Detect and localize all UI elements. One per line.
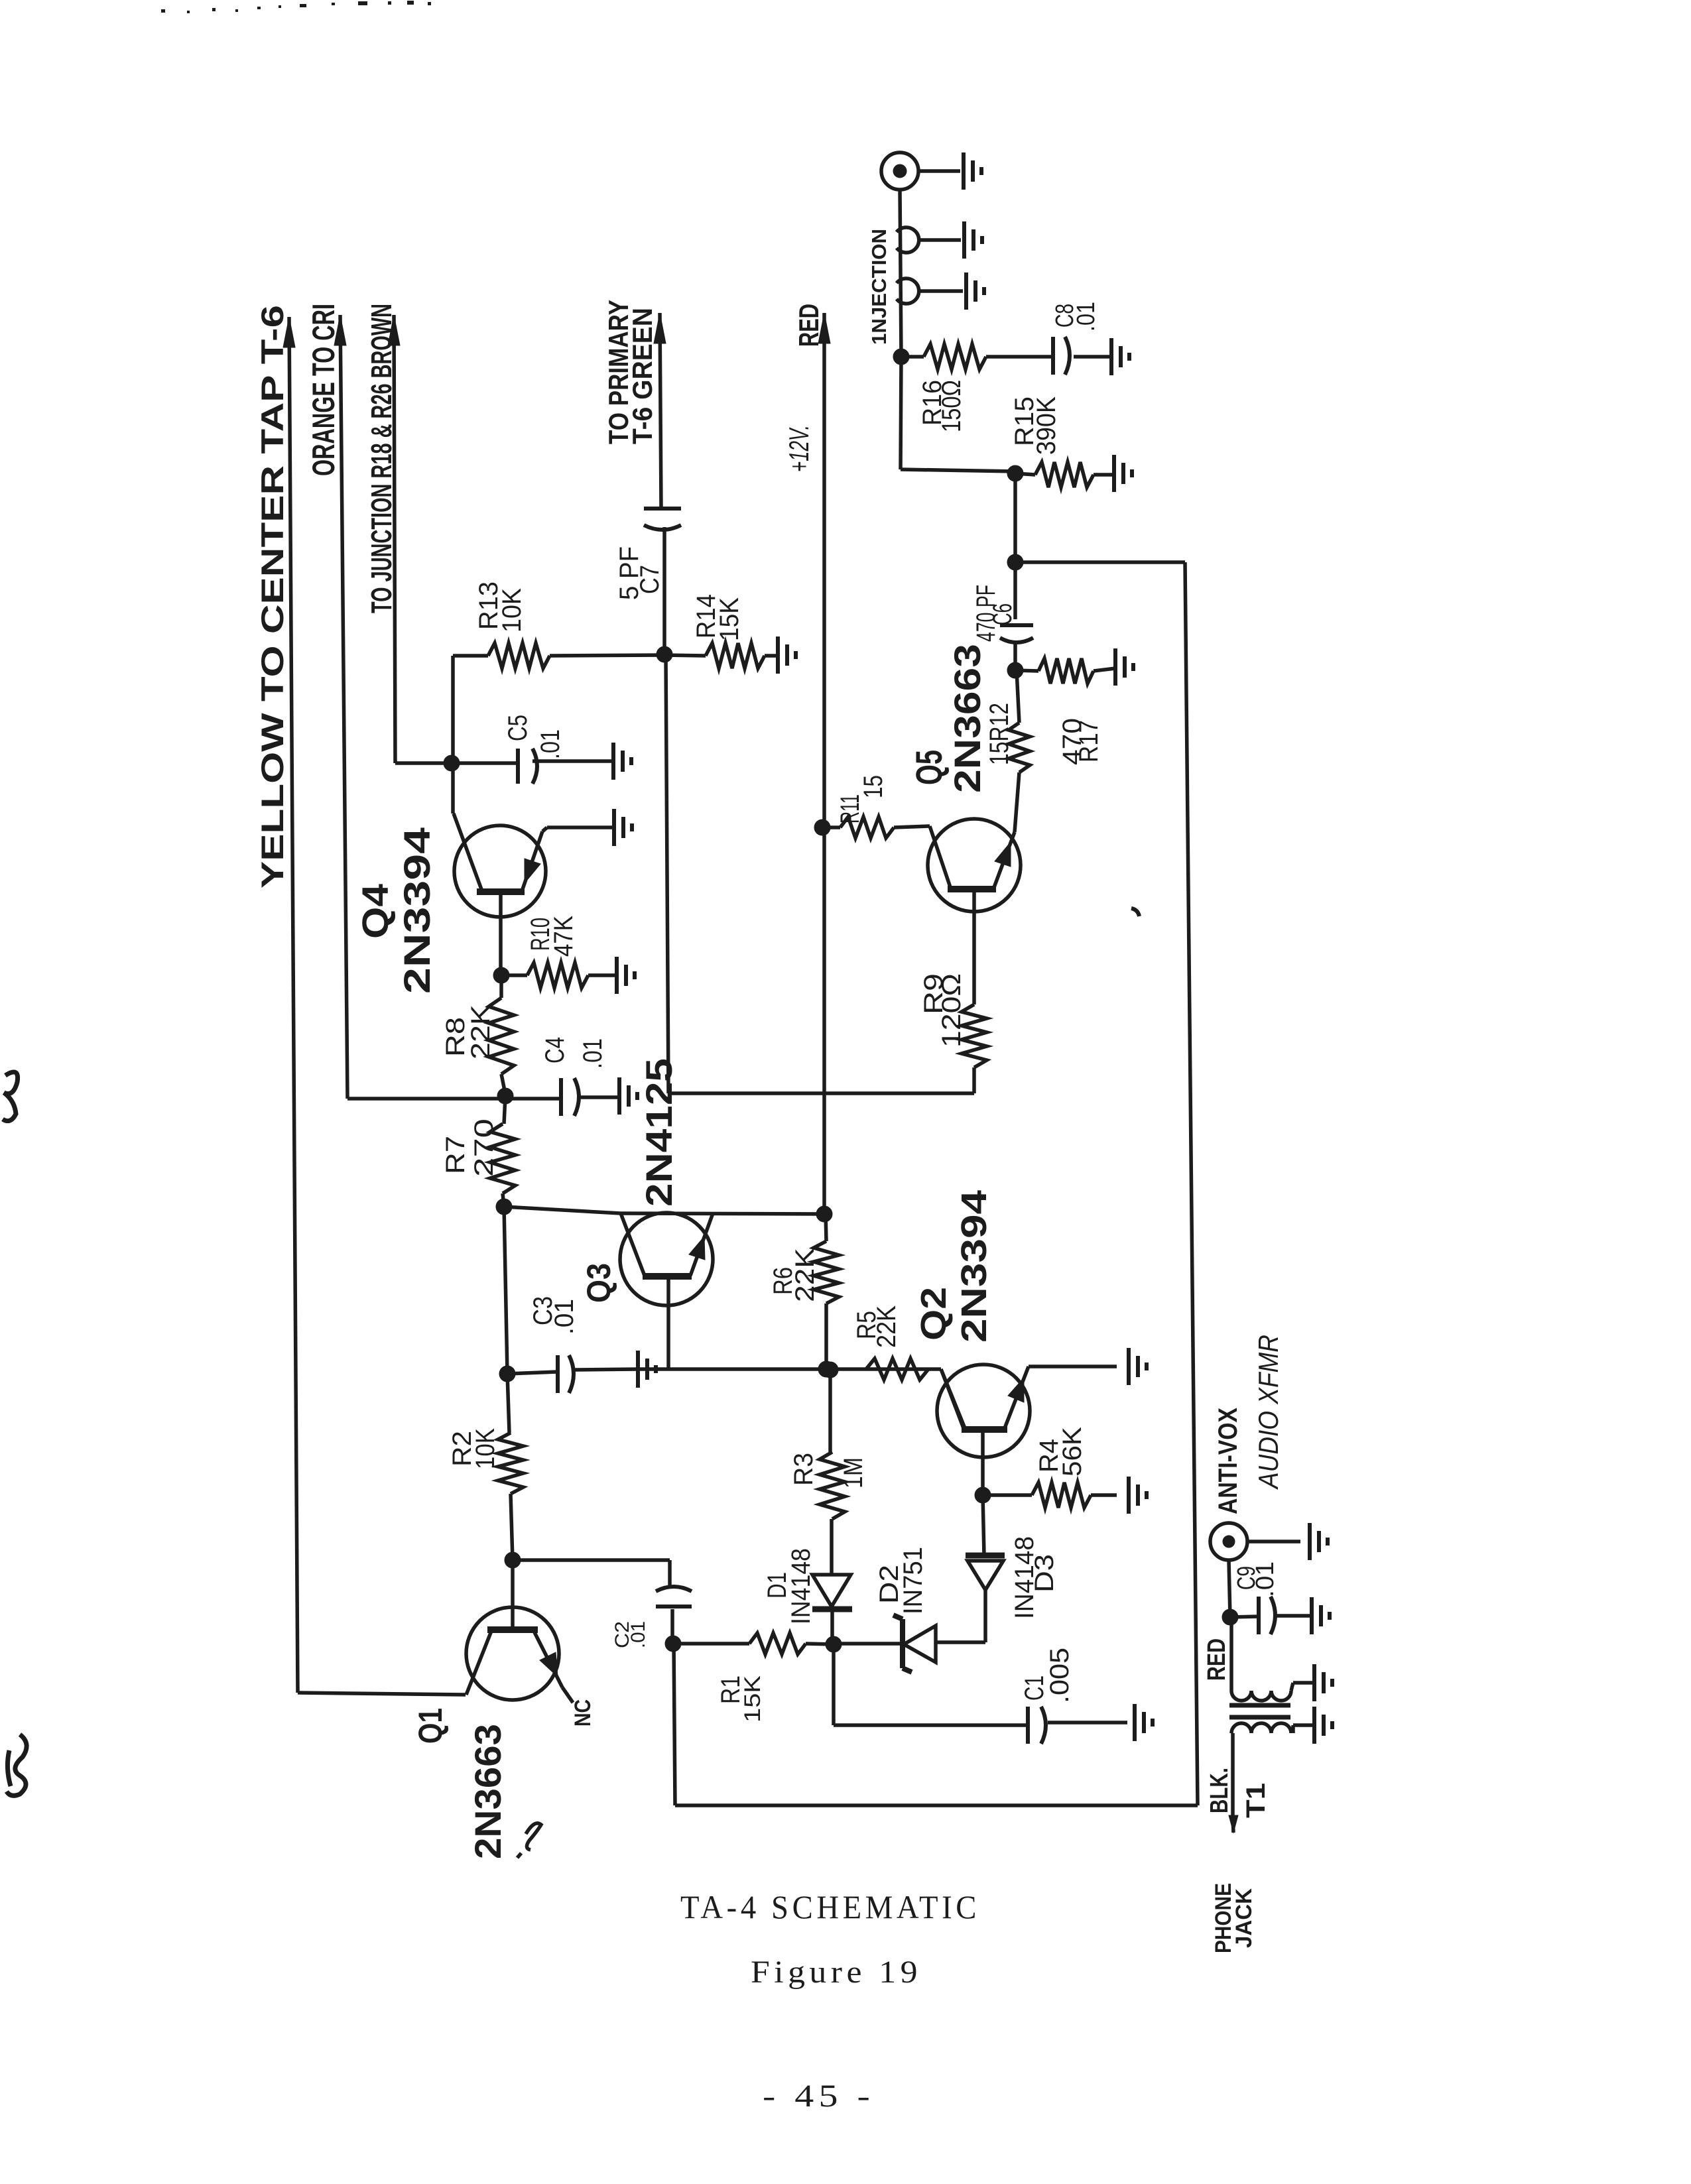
diode D1 [812, 1519, 852, 1644]
transistor Q5 base bar [948, 886, 996, 892]
wire bias rail (C3 ground to R5) [638, 1367, 928, 1371]
label D1 IN4148 [763, 1548, 816, 1624]
resistor R3 [820, 1370, 845, 1519]
svg-text:.01: .01 [627, 1621, 649, 1648]
svg-text:RED: RED [1203, 1638, 1231, 1681]
svg-text:R17: R17 [1074, 720, 1103, 762]
transistor Q2 base lead [981, 1429, 985, 1495]
ground (C9) [1312, 1597, 1330, 1634]
label R6 22K [769, 1248, 820, 1302]
scan specks top edge [161, 1, 431, 13]
svg-text:22K: 22K [790, 1248, 820, 1302]
transistor Q3 emitter with arrow [689, 1213, 713, 1276]
wire T1 primary to ground [1291, 1683, 1313, 1691]
svg-text:+12V.: +12V. [783, 425, 814, 472]
svg-text:1NJECTION: 1NJECTION [867, 229, 891, 345]
ground (C8) [1111, 338, 1129, 375]
scan scribble left margin upper [3, 1072, 18, 1121]
node junction dot (feedback) [1007, 554, 1023, 570]
transistor Q2 circle [937, 1365, 1030, 1457]
title TA-4 SCHEMATIC [680, 1888, 980, 1925]
label C7 value 5 PF [615, 546, 664, 600]
svg-text:R7: R7 [441, 1136, 470, 1174]
svg-text:D3: D3 [1030, 1554, 1059, 1593]
ground (R4) [1129, 1477, 1147, 1514]
transistor Q4 base lead [499, 892, 503, 975]
svg-text:Q4: Q4 [354, 884, 396, 939]
svg-text:56K: 56K [1058, 1427, 1087, 1477]
svg-text:Q1: Q1 [412, 1708, 449, 1744]
resistor R13 [453, 643, 664, 668]
wire BROWN node to R13 [451, 656, 455, 763]
label 2N3663 (Q1) [467, 1724, 509, 1859]
wire Q2 emitter to ground [1029, 1365, 1117, 1368]
transistor Q4 emitter with inward arrow [522, 831, 542, 891]
node junction dot (+12V / Q3 emitter / R6) [816, 1206, 832, 1222]
svg-text:C6: C6 [988, 603, 1017, 625]
node junction dot (Q2 base/R4/D3) [975, 1487, 991, 1503]
capacitor C5 [452, 749, 613, 784]
node junction dot (R15) [1007, 465, 1023, 481]
label R14 15K [692, 594, 744, 641]
svg-text:TO JUNCTION R18 & R26 BROWN: TO JUNCTION R18 & R26 BROWN [365, 304, 398, 613]
label T1 [1241, 1783, 1271, 1818]
svg-text:2N4125: 2N4125 [638, 1058, 680, 1207]
wire injection node to R15 node [901, 357, 1015, 471]
svg-text:- 45 -: - 45 - [763, 2079, 875, 2114]
label R7 270 [441, 1119, 499, 1177]
capacitor C3 [507, 1355, 638, 1393]
label +12V [783, 425, 814, 472]
transistor Q2 base bar [962, 1426, 1007, 1433]
transformer T1 primary winding [1231, 1691, 1291, 1701]
node junction dot (Q4 base/R10/R8) [493, 967, 509, 983]
wire BROWN lead to junction R18 R26 [388, 315, 452, 763]
resistor R15 [1015, 462, 1114, 487]
transistor Q2 emitter with arrow [1005, 1366, 1029, 1428]
wire YELLOW lead to center tap T-6 [283, 317, 466, 1695]
wire bottom bus / feedback loop [674, 562, 1198, 1805]
ground (R10) [617, 957, 635, 994]
svg-text:390K: 390K [1032, 396, 1061, 455]
transistor Q2 collector [941, 1369, 965, 1428]
svg-text:15K: 15K [715, 597, 744, 641]
transistor Q3 base bar [643, 1273, 692, 1280]
label R1 15K [716, 1675, 765, 1723]
ground (C1) [1135, 1704, 1153, 1741]
svg-text:2N3394: 2N3394 [396, 827, 438, 994]
transistor Q1 base bar [487, 1626, 538, 1633]
ground (J1) [964, 152, 981, 190]
wire R7 junction rail [504, 1207, 507, 1374]
wire T1 secondary to phone jack (BLK) [1229, 1733, 1238, 1833]
wire NC stub [562, 1687, 573, 1703]
capacitor C2 [656, 1587, 692, 1644]
label BLK. [1206, 1768, 1233, 1813]
resistor R5 [866, 1359, 964, 1428]
wire ANTI-VOX to ground [1247, 1540, 1300, 1544]
svg-text:RED: RED [793, 304, 824, 347]
label NC [570, 1699, 595, 1727]
svg-text:ANTI-VOX: ANTI-VOX [1214, 1408, 1243, 1514]
svg-text:120Ω: 120Ω [937, 973, 966, 1048]
capacitor C8 [986, 337, 1109, 375]
label Q4 [354, 884, 396, 939]
transistor Q3 circle [620, 1213, 713, 1305]
label R4 56K [1034, 1427, 1087, 1477]
svg-text:Q5: Q5 [908, 750, 950, 785]
label R17 470 [1058, 718, 1103, 765]
node junction dot (C6/R17/R12) [1007, 662, 1023, 678]
resistor R4 [983, 1483, 1117, 1508]
wire +12V supply rail [818, 313, 830, 1214]
label C1 .005 [1020, 1648, 1074, 1703]
transistor Q5 circle [928, 819, 1021, 912]
ground (R14) [778, 637, 796, 674]
wire J1 to ground [918, 169, 960, 173]
svg-text:22K: 22K [872, 1305, 901, 1348]
resistor R1 [673, 1633, 834, 1654]
label ANTI-VOX [1214, 1408, 1243, 1514]
label R9 120 [919, 973, 966, 1048]
label R10 47K [526, 916, 578, 957]
connector J1 INJECTION (with center dot) [881, 152, 918, 190]
ground (C5) [613, 743, 631, 780]
wire C9 node to T1 primary [1229, 1617, 1233, 1691]
label R5 22K [852, 1305, 901, 1348]
svg-text:2N3663: 2N3663 [946, 644, 988, 793]
wire D2 to D3 [983, 1590, 987, 1642]
label C4 .01 [540, 1037, 607, 1069]
ground (T1 secondary) [1314, 1707, 1332, 1744]
node junction dot (R5/R6/Q3 base rail) [818, 1361, 834, 1377]
label 2N3394 (Q4) [396, 827, 438, 994]
resistor R2 [498, 1374, 523, 1560]
node junction dot (BROWN/C5/R13/Q4 collector) [444, 755, 460, 771]
resistor R6 [814, 1214, 839, 1369]
label C2 .01 [611, 1621, 649, 1648]
svg-text:BLK.: BLK. [1206, 1768, 1233, 1813]
node junction dot (R7/Q3 collector rail) [496, 1199, 512, 1215]
ground (C4) [619, 1077, 637, 1115]
svg-text:270: 270 [470, 1119, 499, 1177]
label R11 15 [836, 775, 888, 823]
connector J3 (open) [897, 278, 919, 304]
ground (J2) [964, 221, 982, 259]
svg-text:2N3663: 2N3663 [467, 1724, 509, 1859]
transistor Q1 base lead [511, 1560, 515, 1630]
wire T1 secondary to ground [1293, 1725, 1313, 1733]
svg-text:2N3394: 2N3394 [954, 1190, 994, 1343]
svg-text:.005: .005 [1045, 1648, 1074, 1703]
svg-text:.01: .01 [536, 729, 565, 759]
wire D1 node to C1 [834, 1644, 1028, 1725]
wire ANTI-VOX to C9 node [1229, 1560, 1230, 1617]
svg-text:C5: C5 [503, 715, 532, 741]
label Q3 [580, 1263, 617, 1303]
scan mark comma [1131, 908, 1139, 916]
node junction dot (R2/C3/R7 rail) [499, 1366, 515, 1382]
svg-text:IN751: IN751 [899, 1547, 928, 1614]
svg-text:10K: 10K [497, 588, 527, 633]
ground (bias rail, inline) [638, 1351, 656, 1388]
transistor Q5 base lead [972, 889, 976, 1004]
label RED (supply) [793, 304, 824, 347]
node A junction dot (R13/R14/C7) [657, 646, 672, 662]
svg-text:.01: .01 [1251, 1561, 1279, 1597]
caption Figure 19 [751, 1955, 922, 1990]
wire J2 to ground [919, 238, 961, 242]
svg-text:IN4148: IN4148 [786, 1548, 816, 1624]
label R12 15 [985, 703, 1014, 765]
transistor Q1 collector [466, 1631, 491, 1695]
node junction dot (R8/R7/C4/ORANGE) [497, 1088, 513, 1104]
svg-text:C4: C4 [540, 1037, 570, 1063]
wire J3 to ground [919, 289, 963, 293]
ground (T1 primary) [1314, 1664, 1332, 1701]
label D3 IN4148 [1010, 1536, 1059, 1619]
label C3 .01 [529, 1296, 579, 1335]
label INJECTION [867, 229, 891, 345]
svg-text:TA-4 SCHEMATIC: TA-4 SCHEMATIC [680, 1888, 980, 1925]
label C9 .01 [1233, 1561, 1279, 1597]
ground (Q4 emitter) [614, 809, 632, 846]
wire R15 node to feedback corner [1013, 473, 1017, 562]
svg-text:15: 15 [859, 775, 888, 798]
svg-text:.01: .01 [550, 1299, 579, 1335]
svg-text:150Ω: 150Ω [937, 380, 966, 432]
svg-text:47K: 47K [549, 916, 578, 957]
node junction dot (+12V/R11) [814, 819, 830, 835]
label R16 150 [918, 380, 966, 432]
transistor Q1 emitter with arrow [534, 1631, 562, 1687]
resistor R14 [664, 643, 778, 668]
label 2N3394 (Q2) [954, 1190, 994, 1343]
connector ANTI-VOX (with center dot) [1210, 1523, 1247, 1560]
ground (Q2 emitter) [1129, 1348, 1147, 1385]
transformer T1 core [1229, 1705, 1290, 1717]
label AUDIO XFMR [1253, 1335, 1284, 1490]
resistor R9 [962, 1004, 987, 1093]
transistor Q5 collector [930, 826, 951, 889]
wire Q4 emitter to ground [542, 827, 614, 831]
diode D2 zener (1N751) [893, 1615, 985, 1672]
label R8 22K [441, 1004, 495, 1060]
ground (J3) [966, 273, 984, 310]
label T-6 GREEN [627, 308, 658, 444]
transistor Q3 base lead [666, 1276, 670, 1369]
transistor Q4 collector [453, 763, 482, 891]
ground (ANTI-VOX) [1310, 1523, 1328, 1560]
capacitor C6 [1000, 562, 1033, 670]
wire node to D2 [834, 1642, 903, 1646]
svg-text:AUDIO XFMR: AUDIO XFMR [1253, 1335, 1284, 1490]
node junction dot (R1/D1/D2/C1) [826, 1636, 842, 1652]
label TO JUNCTION R18 & R26 BROWN [365, 304, 398, 613]
capacitor C1 [1028, 1707, 1127, 1744]
svg-text:C7: C7 [635, 565, 664, 594]
label 2N3663 (Q5) [946, 644, 988, 793]
transformer T1 secondary winding [1231, 1723, 1291, 1733]
node junction dot (R3 top rail) [822, 1362, 838, 1378]
connector J2 (open) [897, 227, 919, 253]
svg-text:JACK: JACK [1231, 1888, 1257, 1948]
transistor Q1 circle [466, 1607, 559, 1700]
svg-text:Q2: Q2 [914, 1287, 954, 1341]
label R15 390K [1010, 396, 1061, 455]
transistor Q4 circle [454, 825, 546, 917]
resistor R12 [1009, 670, 1030, 832]
resistor R16 [901, 344, 986, 369]
label RED (T1 lead) [1203, 1638, 1231, 1681]
label R3 1M [789, 1453, 868, 1488]
label Q1 [412, 1708, 449, 1744]
svg-text:15K: 15K [740, 1675, 765, 1723]
svg-text:1M: 1M [839, 1457, 868, 1488]
resistor R7 [490, 1096, 515, 1207]
svg-text:22K: 22K [466, 1004, 495, 1060]
resistor R8 [489, 975, 514, 1094]
label PHONE JACK [1211, 1883, 1257, 1953]
ground (R15) [1114, 455, 1132, 492]
wire GREEN lead to primary T-6 [654, 313, 666, 509]
label R13 10K [474, 581, 527, 633]
label ORANGE TO CRI [306, 304, 341, 476]
svg-text:15R12: 15R12 [985, 703, 1014, 765]
ground (R17) [1115, 648, 1133, 686]
label C6 470 PF [971, 585, 1017, 642]
label 2N4125 (Q3) [638, 1058, 680, 1207]
label Q5 [908, 750, 950, 785]
capacitor C4 [505, 1078, 619, 1116]
label D2 IN751 [875, 1547, 928, 1614]
label C5 .01 [503, 715, 565, 759]
svg-text:YELLOW TO CENTER TAP T-6: YELLOW TO CENTER TAP T-6 [255, 305, 290, 888]
node junction dot (C9/T1 primary) [1222, 1609, 1238, 1625]
label R2 10K [448, 1428, 500, 1469]
capacitor C7 [644, 509, 681, 654]
scan scribble left margin lower [7, 1734, 27, 1795]
svg-text:.01: .01 [1072, 302, 1100, 332]
resistor R17 [1015, 658, 1115, 684]
wire Q1 base node down to C2 [513, 1560, 670, 1588]
svg-text:.01: .01 [578, 1038, 607, 1069]
svg-text:Q3: Q3 [580, 1263, 617, 1303]
svg-text:NC: NC [570, 1699, 595, 1727]
wire injection bus [900, 190, 901, 357]
svg-text:Figure 19: Figure 19 [751, 1955, 922, 1990]
transistor Q4 base bar [477, 888, 525, 895]
svg-text:10K: 10K [471, 1428, 500, 1469]
svg-text:T-6 GREEN: T-6 GREEN [627, 308, 658, 444]
scan scribble below Q1 label [517, 1823, 541, 1858]
wire node A to R9 line [666, 654, 974, 1093]
node junction dot (C2/R1/bottom bus) [665, 1636, 681, 1652]
node junction dot (R2/Q1 base/C2) [505, 1552, 521, 1568]
wire ORANGE lead to CRI [334, 315, 505, 1099]
transistor Q3 collector [621, 1213, 645, 1276]
label YELLOW TO CENTER TAP T-6 [255, 305, 290, 888]
wire Q3 collector rail to +12V junction [504, 1207, 824, 1214]
label C8 .01 [1051, 302, 1100, 332]
svg-text:R3: R3 [789, 1453, 818, 1486]
label TO PRIMARY [603, 300, 634, 444]
label Q2 [914, 1287, 954, 1341]
rotated schematic (landscape drawing placed on portrait page) [255, 152, 1332, 1953]
page number - 45 - [763, 2079, 875, 2114]
svg-text:T1: T1 [1241, 1783, 1271, 1818]
resistor R11 [822, 817, 930, 838]
capacitor C9 [1230, 1597, 1310, 1634]
node junction dot (injection/R16) [893, 349, 909, 365]
resistor R10 [501, 963, 617, 988]
svg-text:ORANGE TO CRI: ORANGE TO CRI [306, 304, 341, 476]
diode D3 [966, 1495, 1005, 1590]
transistor Q5 emitter with arrow [993, 832, 1015, 889]
